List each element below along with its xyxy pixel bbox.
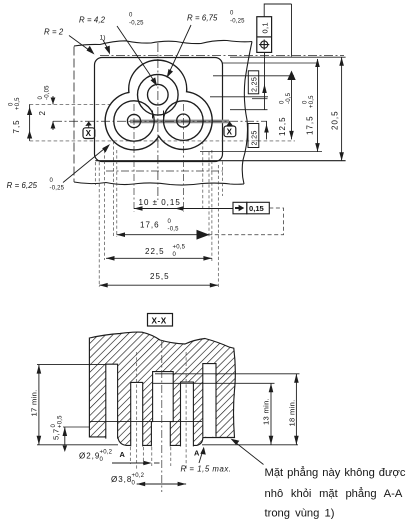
dimension 2,25 upper bbox=[264, 52, 266, 110]
datum X right box bbox=[224, 126, 236, 137]
recess outline rounded rectangle R=2 bbox=[95, 58, 223, 162]
wire: wavy right break line bbox=[242, 42, 252, 185]
dimension line Ø2,9 bbox=[112, 462, 150, 464]
svg-text:+0,2: +0,2 bbox=[100, 450, 113, 456]
13min top ref line bbox=[152, 382, 275, 384]
svg-text:-0,05: -0,05 bbox=[45, 85, 51, 100]
svg-text:0: 0 bbox=[129, 13, 133, 19]
dimension 12,5 vertical bbox=[291, 4, 293, 57]
svg-text:A: A bbox=[194, 449, 200, 458]
earth hole circle R4.2 bbox=[148, 84, 169, 105]
svg-text:+0,5: +0,5 bbox=[58, 415, 64, 428]
fcf position 0,1 vertical box bbox=[257, 17, 272, 53]
leader note 1) bbox=[103, 40, 109, 50]
svg-text:22,5: 22,5 bbox=[145, 247, 165, 256]
leader R=2 bbox=[69, 36, 91, 52]
svg-text:2,25: 2,25 bbox=[250, 130, 259, 145]
svg-text:10 ± 0,15: 10 ± 0,15 bbox=[139, 198, 181, 207]
left pin hole slot bbox=[131, 382, 143, 446]
wire: wavy top break line bbox=[74, 40, 252, 46]
dimension 2 bbox=[52, 96, 54, 104]
svg-text:0: 0 bbox=[303, 100, 309, 104]
svg-text:R = 6,75: R = 6,75 bbox=[187, 14, 218, 23]
right horizontal reference lines bbox=[222, 62, 318, 64]
svg-text:0: 0 bbox=[132, 481, 136, 487]
top cap line left slot to body edge bbox=[89, 363, 105, 365]
svg-text:+0,5: +0,5 bbox=[173, 245, 186, 251]
svg-text:7,5: 7,5 bbox=[12, 119, 21, 133]
right pin centerline / extension bbox=[183, 104, 185, 212]
18min top ref line bbox=[155, 373, 300, 375]
centerline center hole bbox=[161, 340, 163, 492]
svg-text:0: 0 bbox=[50, 178, 54, 184]
right pin hole bbox=[177, 114, 190, 127]
svg-text:2: 2 bbox=[38, 110, 47, 115]
svg-text:+0,2: +0,2 bbox=[132, 473, 145, 479]
leader R=6,75 bbox=[169, 25, 192, 74]
datum X left box bbox=[83, 128, 95, 139]
dimension 20,5 vertical bbox=[341, 57, 343, 161]
svg-text:0: 0 bbox=[173, 252, 177, 258]
svg-text:0: 0 bbox=[100, 457, 104, 463]
centerline left pin bbox=[136, 352, 138, 470]
left pin centerline / extension bbox=[133, 104, 135, 212]
X-X label box bbox=[148, 314, 173, 327]
left horizontal reference line bbox=[30, 103, 110, 105]
bridge tick right bbox=[163, 111, 165, 119]
svg-text:0: 0 bbox=[51, 424, 57, 428]
svg-text:-0,5: -0,5 bbox=[168, 227, 180, 233]
dimension line Ø3,8 bbox=[137, 483, 186, 485]
dimension 5,7 bbox=[64, 427, 66, 445]
svg-text:13 min.: 13 min. bbox=[262, 398, 271, 425]
fcf position 0,15 attached to 10 dim bbox=[233, 202, 247, 214]
svg-text:17,6: 17,6 bbox=[140, 221, 160, 230]
5,7 top ref line bbox=[63, 426, 90, 428]
wire: wavy bottom break line bbox=[74, 182, 244, 185]
leader from fcf top to 12,5 line bbox=[264, 4, 291, 17]
svg-text:0: 0 bbox=[280, 100, 286, 104]
dimension 13 min bbox=[270, 383, 272, 445]
dimension 17 min bbox=[38, 365, 40, 445]
left pin hole bbox=[127, 114, 140, 127]
leader R=6,25 bbox=[63, 147, 107, 183]
hidden dashed line below recess bbox=[106, 170, 223, 172]
17min top ref line bbox=[37, 364, 90, 366]
svg-text:0,15: 0,15 bbox=[249, 204, 265, 213]
svg-text:Mặt phẳng này không được: Mặt phẳng này không được bbox=[265, 466, 406, 479]
horizontal dash-dot reference line top bbox=[100, 55, 344, 57]
svg-text:18 min.: 18 min. bbox=[288, 399, 297, 426]
svg-text:R = 4,2: R = 4,2 bbox=[79, 16, 106, 25]
dimension 10 ± 0,15 line bbox=[134, 208, 233, 210]
leader to note text bbox=[233, 441, 264, 465]
extension verticals right group bbox=[202, 141, 204, 211]
svg-text:X: X bbox=[86, 129, 92, 138]
dimension 18 min bbox=[295, 374, 297, 445]
section plane X-X thick gray band bbox=[130, 120, 229, 124]
svg-text:R = 2: R = 2 bbox=[44, 28, 64, 37]
svg-text:R = 6,25: R = 6,25 bbox=[7, 181, 38, 190]
svg-text:X-X: X-X bbox=[152, 316, 167, 325]
svg-text:20,5: 20,5 bbox=[331, 110, 340, 130]
dimension 25,5 line bbox=[99, 284, 218, 286]
ring circle around earth hole bbox=[138, 74, 179, 115]
horizontal centerline through pin holes bbox=[53, 120, 267, 122]
svg-text:0: 0 bbox=[230, 11, 234, 17]
svg-text:17 min.: 17 min. bbox=[30, 389, 39, 416]
svg-text:trong vùng 1): trong vùng 1) bbox=[265, 508, 335, 520]
box 2,25 upper bbox=[248, 71, 258, 94]
leader R=1,5 bbox=[199, 450, 203, 463]
svg-text:17,5: 17,5 bbox=[306, 115, 315, 135]
center hole wide + narrow bbox=[151, 372, 173, 447]
svg-text:0: 0 bbox=[38, 96, 44, 100]
extension verticals left group bbox=[94, 162, 96, 185]
body break outline (broken-out fragment of moulding) bbox=[73, 47, 75, 183]
section body with hatching bbox=[89, 332, 235, 445]
svg-text:2,25: 2,25 bbox=[250, 77, 259, 92]
svg-text:-0,5: -0,5 bbox=[286, 92, 292, 104]
svg-text:X: X bbox=[227, 127, 233, 136]
svg-text:12,5: 12,5 bbox=[278, 116, 287, 136]
dimension 2,25 lower bbox=[266, 121, 268, 139]
left lobe circle R6.25 bbox=[114, 101, 154, 141]
svg-text:0,1: 0,1 bbox=[261, 22, 270, 33]
svg-text:-0,25: -0,25 bbox=[129, 21, 144, 27]
centerline right pin bbox=[185, 352, 187, 470]
svg-text:25,5: 25,5 bbox=[150, 272, 170, 281]
dimension 22,5 line bbox=[106, 257, 212, 259]
extension verticals below section bbox=[129, 447, 131, 464]
right tall slot bbox=[203, 364, 216, 437]
svg-text:-0,25: -0,25 bbox=[50, 186, 65, 192]
svg-text:A: A bbox=[120, 450, 126, 459]
svg-text:nhô khỏi mặt phẳng A-A: nhô khỏi mặt phẳng A-A bbox=[265, 487, 403, 500]
leader R=4,2 bbox=[117, 26, 156, 83]
connector fcf 0,15 to 17,6 dimension bbox=[209, 208, 284, 235]
svg-text:0: 0 bbox=[168, 219, 172, 225]
cloverleaf outer contour bbox=[105, 60, 212, 150]
A-A reference plane line bbox=[37, 444, 298, 446]
internal step line through holes bbox=[90, 421, 202, 423]
svg-text:1): 1) bbox=[100, 35, 106, 42]
svg-text:-0,25: -0,25 bbox=[230, 19, 245, 25]
left slot (through hole) bbox=[106, 364, 118, 438]
dimension 17,6 line bbox=[117, 234, 210, 236]
svg-text:Ø2,9: Ø2,9 bbox=[79, 452, 100, 461]
svg-text:R = 1,5 max.: R = 1,5 max. bbox=[181, 465, 232, 474]
right pin hole slot bbox=[181, 382, 194, 446]
svg-text:0: 0 bbox=[9, 102, 15, 106]
svg-text:+0,5: +0,5 bbox=[309, 95, 315, 108]
svg-text:Ø3,8: Ø3,8 bbox=[111, 475, 132, 484]
svg-text:+0,5: +0,5 bbox=[15, 97, 21, 110]
right lobe circle bbox=[164, 101, 204, 141]
vertical centerline bbox=[157, 43, 159, 200]
svg-text:5,7: 5,7 bbox=[52, 429, 61, 440]
box 2,25 lower bbox=[248, 124, 259, 148]
bridge tick left bbox=[152, 111, 154, 119]
dimension 17,5 vertical bbox=[317, 59, 319, 152]
dimension 7,5 bbox=[29, 104, 31, 141]
